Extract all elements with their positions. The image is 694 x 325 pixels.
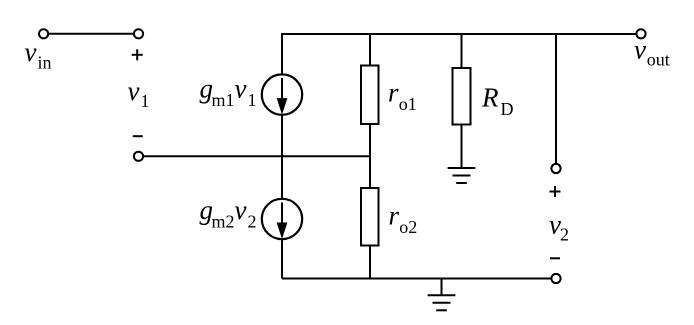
wire ro1 top <box>369 34 371 66</box>
wire between current sources <box>281 115 283 199</box>
node vout terminal <box>636 29 645 38</box>
ground G1 under RD <box>448 168 476 183</box>
resistor ro2 <box>361 188 379 246</box>
ground G2 bottom <box>428 295 456 310</box>
wire input top-left <box>48 33 134 35</box>
wire v2 top branch <box>555 34 557 164</box>
resistor ro1 <box>361 66 379 125</box>
svg-text:v: v <box>235 195 247 225</box>
svg-text:v: v <box>128 76 140 106</box>
wire ro1 bottom <box>369 124 371 156</box>
node vin terminal <box>39 29 48 38</box>
svg-text:1: 1 <box>248 90 257 110</box>
svg-text:v: v <box>634 35 646 65</box>
svg-text:m1: m1 <box>212 90 235 110</box>
current source U1 arrowhead <box>277 98 288 115</box>
svg-text:m2: m2 <box>212 212 235 232</box>
label plus of v1 <box>132 49 143 60</box>
node v2 minus terminal <box>551 274 560 283</box>
label plus of v2 <box>550 186 561 197</box>
svg-text:r: r <box>389 201 400 231</box>
svg-text:v: v <box>25 37 37 67</box>
svg-text:o2: o2 <box>399 217 417 237</box>
label minus of v1 <box>133 135 143 137</box>
svg-text:R: R <box>481 83 499 113</box>
wire RD top <box>461 34 463 68</box>
node v1 plus terminal <box>134 29 143 38</box>
node v1 minus terminal <box>134 152 143 161</box>
wire ro2 top <box>369 156 371 188</box>
wire cs1 arrow shaft <box>281 78 283 102</box>
wire bottom ground stem <box>441 279 443 296</box>
svg-text:2: 2 <box>248 212 257 232</box>
wire RD to ground <box>461 125 463 169</box>
wire mid (v1 minus to ro junction) <box>143 155 370 157</box>
wire bottom rail <box>282 278 551 280</box>
svg-text:D: D <box>501 99 514 119</box>
svg-text:2: 2 <box>560 225 569 245</box>
svg-text:in: in <box>38 53 52 73</box>
current source U2 arrowhead <box>277 223 288 240</box>
svg-text:out: out <box>647 50 670 70</box>
wire top rail <box>282 34 636 74</box>
svg-text:o1: o1 <box>399 94 417 114</box>
svg-text:v: v <box>235 74 247 104</box>
wire cs2 to bottom rail <box>281 239 283 278</box>
wire ro2 bottom <box>369 246 371 279</box>
label minus of v2 <box>550 257 560 259</box>
svg-text:r: r <box>388 78 399 108</box>
resistor RD <box>453 68 471 125</box>
current source U1 gm1v1 <box>262 74 302 114</box>
svg-text:1: 1 <box>141 91 150 111</box>
wire cs2 arrow shaft <box>281 202 283 226</box>
node v2 plus terminal <box>551 164 560 173</box>
current source U2 gm2v2 <box>262 199 302 239</box>
